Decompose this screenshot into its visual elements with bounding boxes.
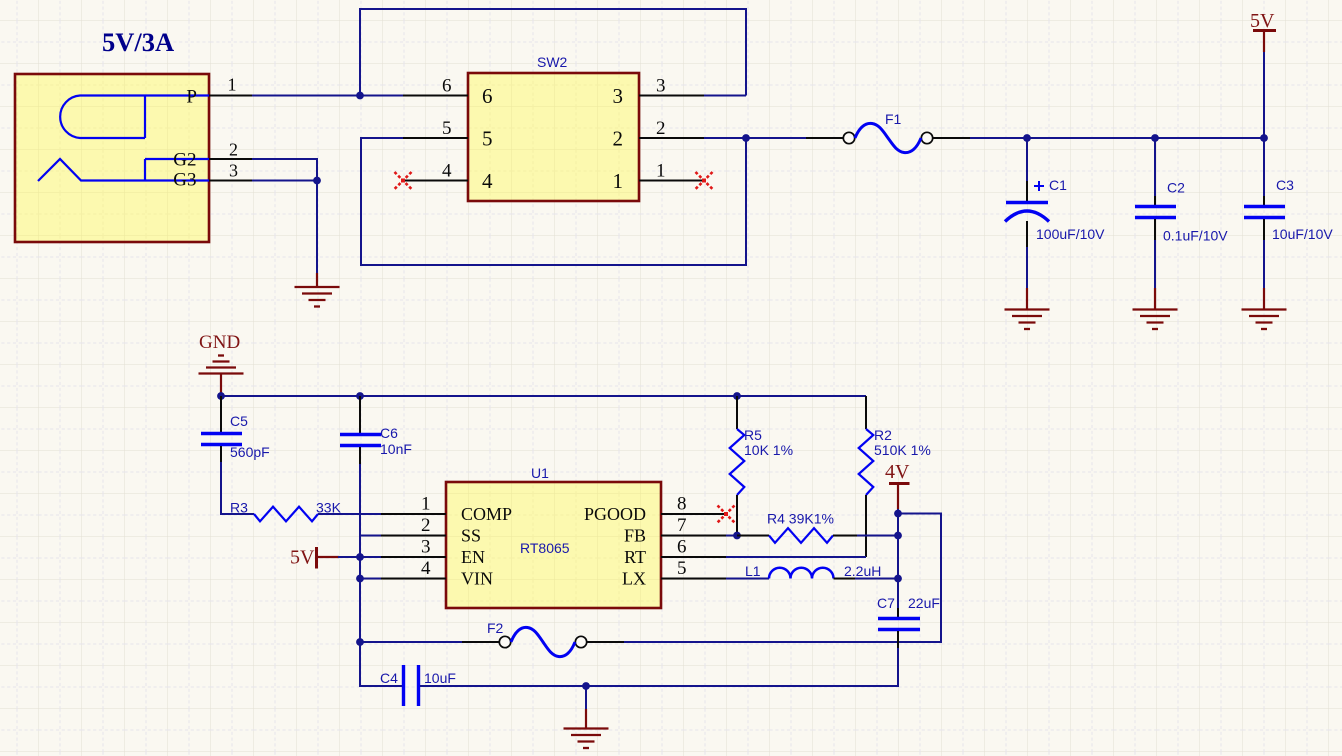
svg-text:R5: R5 (744, 427, 762, 443)
wire lower loop SW2 pin5 to pin2 (361, 138, 746, 265)
wire 5V port down (1263, 52, 1265, 138)
wire top bus corner to R2 (865, 395, 867, 397)
wire top loop SW2 pin6 to pin3 (360, 9, 746, 96)
capacitor C1 bottom lead (1026, 221, 1028, 247)
capacitor C5 body (201, 434, 242, 445)
node junction R4/4V bus (894, 532, 902, 540)
wire P to SW2 pin6 (252, 95, 403, 97)
capacitor C6 top lead (359, 396, 361, 433)
wire VIN stub (360, 578, 381, 580)
svg-text:4: 4 (482, 169, 493, 193)
SW2 pin 4 lead (403, 180, 468, 182)
fuse F1 body (843, 123, 932, 152)
resistor R5 designator (744, 427, 762, 443)
svg-text:22uF: 22uF (908, 595, 940, 611)
U1 pin 5 number (677, 558, 687, 579)
SW2 pin 4 number (442, 161, 452, 182)
wire SW2 to F1 (746, 137, 806, 139)
wire C4 to ground bus (420, 685, 586, 687)
resistor R2 value (874, 442, 931, 458)
node junction bottom ground (582, 682, 590, 690)
connector pin name P (186, 87, 197, 108)
svg-text:R2: R2 (874, 427, 892, 443)
wire SW2 pin3 (704, 95, 746, 97)
svg-text:1: 1 (656, 161, 666, 182)
svg-text:5: 5 (442, 118, 452, 139)
capacitor C7 value (908, 595, 940, 611)
ground connector (295, 273, 340, 307)
wire rail to C2 (1154, 138, 1156, 196)
IC U1 body (446, 482, 661, 608)
inductor L1 designator (745, 563, 761, 579)
IC U1 part number RT8065 (520, 540, 570, 556)
U1 pin name FB (624, 526, 646, 546)
svg-text:C5: C5 (230, 413, 248, 429)
capacitor C5 designator (230, 413, 248, 429)
wire R4 to 4V node (857, 535, 898, 537)
inductor L1 value 2.2uH (844, 563, 881, 579)
wire FB stub (726, 535, 737, 537)
svg-text:10uF: 10uF (424, 670, 456, 686)
U1 pin name RT (624, 547, 646, 567)
wire SS stub (360, 535, 381, 537)
svg-text:2: 2 (229, 139, 238, 159)
node junction C1 (1023, 134, 1031, 142)
ground C1 (1005, 288, 1050, 329)
svg-text:2: 2 (656, 118, 666, 139)
power port 5V (top) (1250, 10, 1276, 52)
svg-text:2.2uH: 2.2uH (844, 563, 881, 579)
SW2 pin 1 lead (639, 180, 704, 182)
U1 pin 5 lead (661, 578, 726, 580)
svg-text:0.1uF/10V: 0.1uF/10V (1163, 228, 1228, 244)
U1 pin name COMP (461, 504, 512, 524)
connector pin name G3 (173, 170, 196, 191)
ground C2 (1133, 288, 1178, 329)
wire C5 to R3 (221, 462, 254, 514)
resistor R2 body (859, 429, 874, 495)
wire 5V rail (970, 137, 1264, 139)
ground C3 (1242, 288, 1287, 329)
capacitor C7 body (878, 619, 920, 630)
node junction pin2/loop/output (742, 134, 750, 142)
U1 pin name SS (461, 526, 481, 546)
wire C6 vertical bus (360, 464, 403, 686)
svg-text:RT8065: RT8065 (520, 540, 570, 556)
SW2 pin 3 number (656, 76, 666, 97)
svg-text:3: 3 (229, 161, 238, 181)
capacitor C7 designator (877, 595, 895, 611)
svg-text:6: 6 (442, 76, 452, 97)
U1 pin name PGOOD (584, 504, 646, 524)
connector pin 3 number (229, 161, 238, 181)
fuse F2 right lead (587, 641, 624, 643)
svg-text:C1: C1 (1049, 177, 1067, 193)
svg-text:4: 4 (442, 161, 452, 182)
svg-text:5V: 5V (1250, 10, 1275, 32)
node junction R5 top (733, 392, 741, 400)
SW2 pin 2 name (613, 127, 624, 151)
SW2 pin 2 lead (639, 137, 704, 139)
svg-text:VIN: VIN (461, 569, 493, 589)
svg-text:C6: C6 (380, 425, 398, 441)
capacitor C2 value (1163, 228, 1228, 244)
svg-text:FB: FB (624, 526, 646, 546)
svg-text:3: 3 (613, 84, 624, 108)
resistor R3 designator (230, 500, 248, 516)
SW2 pin 6 name (482, 84, 493, 108)
svg-text:LX: LX (622, 569, 646, 589)
wire G2 down to G3 (252, 159, 317, 181)
svg-text:R3: R3 (230, 500, 248, 516)
svg-text:4V: 4V (885, 461, 910, 483)
U1 pin name EN (461, 547, 485, 567)
U1 pin 2 number (421, 515, 431, 536)
ground bottom (564, 709, 609, 748)
SW2 pin 3 name (613, 84, 624, 108)
resistor R3 value 33K (316, 500, 342, 516)
wire VIN bus to F2 (360, 641, 462, 643)
wire C1 to ground (1026, 247, 1028, 288)
no-connect X on SW2 pin4 (395, 172, 412, 189)
svg-text:C2: C2 (1167, 180, 1185, 196)
svg-text:C4: C4 (380, 670, 398, 686)
svg-text:560pF: 560pF (230, 444, 270, 460)
capacitor C2 top lead (1154, 196, 1156, 205)
svg-text:EN: EN (461, 547, 485, 567)
wire rail to C3 (1263, 138, 1265, 196)
wire RT to R2 (726, 556, 866, 558)
svg-text:5: 5 (482, 127, 493, 151)
fuse F1 right lead (933, 137, 970, 139)
U1 pin 3 lead (381, 556, 446, 558)
svg-text:3: 3 (656, 76, 666, 97)
svg-text:SS: SS (461, 526, 481, 546)
svg-text:R4 39K1%: R4 39K1% (767, 511, 834, 527)
capacitor C6 value (380, 441, 412, 457)
capacitor C6 designator (380, 425, 398, 441)
wire L1 to 4V bus (855, 578, 898, 580)
capacitor C6 bottom lead (359, 447, 361, 464)
resistor R2 top lead (865, 396, 867, 429)
connector pin 1 lead (209, 95, 252, 97)
switch SW2 body (468, 73, 639, 201)
capacitor C1 value (1036, 226, 1105, 242)
capacitor C4 body (404, 665, 419, 706)
SW2 pin 5 lead (403, 137, 468, 139)
svg-text:U1: U1 (531, 465, 549, 481)
U1 pin 1 lead (381, 513, 446, 515)
power connector title 5V/3A (102, 27, 174, 57)
U1 pin 7 number (677, 515, 687, 536)
resistor R3 body (254, 507, 318, 522)
wire C3 to ground (1263, 240, 1265, 288)
SW2 pin 2 number (656, 118, 666, 139)
wire G net down (316, 181, 318, 274)
svg-text:8: 8 (677, 494, 687, 515)
node junction LX/4V bus (894, 575, 902, 583)
node junction C6 top (356, 392, 364, 400)
U1 pin name LX (622, 569, 646, 589)
U1 pin 3 number (421, 537, 431, 558)
inductor L1 right lead (834, 578, 856, 580)
node junction EN (356, 553, 364, 561)
capacitor C7 top lead (897, 608, 899, 617)
SW2 pin 6 lead (403, 95, 468, 97)
svg-text:6: 6 (677, 537, 687, 558)
wire C2 to ground (1154, 240, 1156, 288)
svg-text:COMP: COMP (461, 504, 512, 524)
resistor R4 right lead (833, 535, 857, 537)
switch SW2 designator (537, 54, 568, 70)
capacitor C1 plus sign (1034, 181, 1044, 191)
svg-text:5: 5 (677, 558, 687, 579)
wire ground stem (585, 686, 587, 709)
node junction GND/C5 (217, 392, 225, 400)
svg-text:2: 2 (421, 515, 431, 536)
wire G3 to ground (252, 180, 317, 182)
node junction C2 (1151, 134, 1159, 142)
resistor R5 bottom lead (736, 495, 738, 536)
capacitor C6 body (340, 435, 381, 446)
resistor R5 value (744, 442, 793, 458)
node junction P/loop (356, 92, 364, 100)
capacitor C3 body (1244, 207, 1285, 218)
SW2 pin 3 lead (639, 95, 704, 97)
svg-text:C3: C3 (1276, 177, 1294, 193)
U1 pin 8 number (677, 494, 687, 515)
capacitor C5 value (230, 444, 270, 460)
connector J1 barrel jack symbol (38, 96, 209, 182)
U1 pin 8 lead (661, 513, 726, 515)
svg-text:1: 1 (421, 494, 431, 515)
no-connect X on PGOOD (718, 506, 735, 523)
wire bottom bus to C7 (586, 685, 898, 687)
connector pin 2 lead (209, 158, 252, 160)
capacitor C3 bottom lead (1263, 219, 1265, 240)
svg-text:3: 3 (421, 537, 431, 558)
U1 pin 1 number (421, 494, 431, 515)
resistor R2 designator (874, 427, 892, 443)
resistor R4 designator-value (767, 511, 834, 527)
svg-text:1: 1 (228, 75, 237, 95)
svg-text:5V: 5V (290, 547, 315, 569)
no-connect X on SW2 pin1 (696, 172, 713, 189)
svg-text:F1: F1 (885, 111, 902, 127)
wire SW2 pin2 (704, 137, 746, 139)
capacitor C4 value (424, 670, 456, 686)
U1 pin 2 lead (381, 535, 446, 537)
svg-text:L1: L1 (745, 563, 761, 579)
connector pin 1 number (228, 75, 237, 95)
power port GND (net label top) (199, 332, 244, 393)
U1 pin 6 number (677, 537, 687, 558)
connector J1 body (DC jack) (15, 74, 209, 242)
node junction G2/G3 (313, 177, 321, 185)
U1 pin 4 lead (381, 578, 446, 580)
svg-text:SW2: SW2 (537, 54, 568, 70)
IC U1 designator (531, 465, 549, 481)
SW2 pin 5 number (442, 118, 452, 139)
node junction F2 left (356, 638, 364, 646)
U1 pin 4 number (421, 558, 431, 579)
resistor R5 body (730, 429, 745, 495)
U1 pin 7 lead (661, 535, 726, 537)
wire LX to L1 (726, 578, 769, 580)
resistor R4 left lead (737, 535, 769, 537)
capacitor C3 top lead (1263, 196, 1265, 205)
capacitor C4 designator (380, 670, 398, 686)
SW2 pin 5 name (482, 127, 493, 151)
wire rail to C1 (1026, 138, 1028, 181)
capacitor C7 bottom lead (897, 631, 899, 648)
power port 5V (EN) (290, 547, 339, 569)
power port 4V (885, 461, 910, 509)
SW2 pin 1 name (613, 169, 624, 193)
svg-text:PGOOD: PGOOD (584, 504, 646, 524)
wire C7 to bottom bus (419, 648, 898, 686)
svg-text:GND: GND (199, 332, 240, 353)
svg-text:100uF/10V: 100uF/10V (1036, 226, 1105, 242)
wire R3 to COMP (318, 513, 381, 515)
inductor L1 body (769, 568, 834, 579)
node junction C3/5V (1260, 134, 1268, 142)
svg-text:1: 1 (613, 169, 624, 193)
capacitor C2 designator (1167, 180, 1185, 196)
capacitor C5 bottom lead (220, 446, 222, 462)
svg-text:RT: RT (624, 547, 646, 567)
SW2 pin 1 number (656, 161, 666, 182)
svg-text:C7: C7 (877, 595, 895, 611)
resistor R5 top lead (736, 396, 738, 429)
svg-text:G3: G3 (173, 170, 196, 191)
svg-text:10K 1%: 10K 1% (744, 442, 793, 458)
node junction VIN (356, 575, 364, 583)
capacitor C5 top lead (220, 396, 222, 432)
svg-text:10uF/10V: 10uF/10V (1272, 226, 1333, 242)
svg-text:510K 1%: 510K 1% (874, 442, 931, 458)
connector pin name G2 (173, 150, 196, 171)
svg-text:10nF: 10nF (380, 441, 412, 457)
capacitor C1 body (1005, 203, 1049, 222)
svg-text:2: 2 (613, 127, 624, 151)
fuse F1 designator (885, 111, 902, 127)
fuse F2 designator (487, 620, 504, 636)
fuse F1 left lead (806, 137, 843, 139)
fuse F2 left lead (462, 641, 499, 643)
svg-text:F2: F2 (487, 620, 504, 636)
svg-text:G2: G2 (173, 150, 196, 171)
resistor R4 body (769, 528, 833, 543)
connector pin 3 lead (209, 180, 252, 182)
svg-text:4: 4 (421, 558, 431, 579)
resistor R2 bottom lead (865, 495, 867, 557)
capacitor C2 body (1135, 207, 1176, 218)
capacitor C1 top lead (1026, 181, 1028, 201)
fuse F2 body (499, 627, 586, 656)
wire GND bus horizontal (221, 393, 866, 396)
wire 5V to EN (338, 556, 381, 558)
svg-text:6: 6 (482, 84, 493, 108)
capacitor C1 designator (1049, 177, 1067, 193)
SW2 pin 4 name (482, 169, 493, 193)
wire 4V bus vertical (897, 509, 899, 608)
node junction FB/R5 (733, 532, 741, 540)
svg-text:P: P (186, 87, 197, 108)
SW2 pin 6 number (442, 76, 452, 97)
capacitor C3 value (1272, 226, 1333, 242)
U1 pin 6 lead (661, 556, 726, 558)
wire 4V loop to F2 (624, 514, 941, 643)
svg-text:5V/3A: 5V/3A (102, 27, 174, 57)
capacitor C3 designator (1276, 177, 1294, 193)
U1 pin name VIN (461, 569, 493, 589)
capacitor C2 bottom lead (1154, 219, 1156, 240)
node junction 4V top (894, 510, 902, 518)
connector pin 2 number (229, 139, 238, 159)
svg-text:7: 7 (677, 515, 687, 536)
